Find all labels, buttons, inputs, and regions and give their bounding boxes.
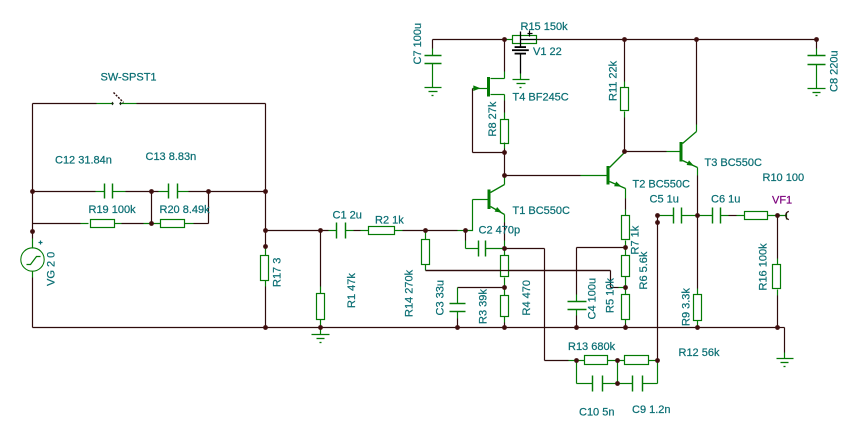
svg-text:C6 1u: C6 1u [711,194,740,206]
svg-text:R11 22k: R11 22k [608,60,620,101]
svg-text:R13 680k: R13 680k [568,341,616,353]
svg-text:R7 1k: R7 1k [630,225,642,254]
svg-text:VG 2 0: VG 2 0 [46,252,58,286]
svg-text:C13 8.83n: C13 8.83n [146,151,197,163]
svg-text:T3 BC550C: T3 BC550C [705,157,763,169]
svg-text:R19 100k: R19 100k [89,204,137,216]
svg-text:R10 100: R10 100 [763,172,805,184]
svg-text:R12 56k: R12 56k [679,347,720,359]
svg-text:R4 470: R4 470 [521,280,533,315]
svg-text:C1 2u: C1 2u [333,209,362,221]
svg-text:T4 BF245C: T4 BF245C [513,91,569,103]
svg-text:R1 47k: R1 47k [346,273,358,308]
svg-text:SW-SPST1: SW-SPST1 [101,72,157,84]
svg-text:C12 31.84n: C12 31.84n [55,155,112,167]
svg-text:C4 100u: C4 100u [587,278,599,320]
svg-text:C5 1u: C5 1u [650,194,679,206]
svg-text:T2 BC550C: T2 BC550C [633,179,691,191]
svg-text:VF1: VF1 [772,194,792,206]
svg-text:C3 33u: C3 33u [435,280,447,315]
svg-text:C8 220u: C8 220u [829,50,841,92]
svg-text:R20 8.49k: R20 8.49k [160,204,211,216]
svg-text:R2 1k: R2 1k [375,215,404,227]
svg-text:R17 3: R17 3 [272,258,284,287]
svg-text:R15 150k: R15 150k [521,21,569,33]
svg-text:C7 100u: C7 100u [412,23,424,65]
svg-text:R6 5.6k: R6 5.6k [638,251,650,289]
svg-text:V1 22: V1 22 [533,46,562,58]
svg-text:R14 270k: R14 270k [404,269,416,317]
svg-text:T1 BC550C: T1 BC550C [513,205,571,217]
svg-text:R9 3.3k: R9 3.3k [681,288,693,326]
svg-text:R8 27k: R8 27k [487,101,499,136]
svg-text:C9 1.2n: C9 1.2n [632,404,671,416]
svg-text:R3 39k: R3 39k [478,289,490,324]
svg-text:R5 10k: R5 10k [605,278,617,313]
svg-text:C10 5n: C10 5n [579,407,614,419]
svg-text:C2 470p: C2 470p [479,225,521,237]
svg-text:R16 100k: R16 100k [758,243,770,291]
